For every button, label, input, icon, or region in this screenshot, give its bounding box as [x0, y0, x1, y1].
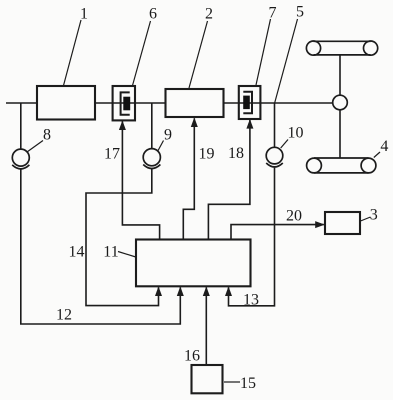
label 6 — [133, 5, 158, 85]
box 15 — [192, 365, 223, 393]
svg-text:16: 16 — [184, 347, 200, 364]
wire: input shaft left stub — [6, 102, 37, 104]
label 5 — [275, 3, 305, 103]
wire 13 (sensor 10 to controller) — [229, 168, 275, 306]
box 2 — [166, 89, 224, 117]
clutch 7 — [239, 86, 261, 119]
svg-text:15: 15 — [240, 375, 256, 392]
wire 12 (sensor 8 to controller) — [21, 170, 181, 325]
svg-text:2: 2 — [205, 5, 213, 22]
svg-text:7: 7 — [269, 4, 277, 21]
wire: shaft box2 to differential — [224, 102, 333, 104]
svg-text:12: 12 — [56, 306, 72, 323]
sensor 8 — [12, 149, 29, 169]
wire 19 (controller to box 2) — [183, 118, 194, 239]
clutch 6 — [113, 86, 135, 120]
wire: tap down to sensor 9 — [151, 103, 153, 149]
sensor 10 — [266, 147, 283, 167]
label 2 — [189, 5, 213, 88]
wire 16 (box 15 to controller) — [205, 288, 207, 366]
box 1 — [37, 86, 95, 120]
label 15 — [224, 375, 256, 392]
wire 14 (sensor 9 to controller) — [86, 169, 159, 306]
label 1 — [64, 5, 89, 85]
svg-text:18: 18 — [228, 145, 244, 162]
front axle with wheels (top) — [306, 41, 377, 55]
label 8 — [27, 126, 51, 152]
svg-text:8: 8 — [43, 126, 51, 143]
svg-text:13: 13 — [243, 291, 259, 308]
svg-text:9: 9 — [164, 126, 172, 143]
svg-text:1: 1 — [80, 5, 88, 22]
svg-text:10: 10 — [288, 125, 304, 142]
wire: tap down to sensor 8 — [20, 103, 22, 149]
label 3 — [361, 206, 378, 223]
svg-text:20: 20 — [286, 207, 302, 224]
wire: lower axle shaft — [339, 110, 341, 158]
label 9 — [158, 126, 172, 151]
differential — [333, 95, 348, 110]
rear axle with wheels (bottom), label 4 — [307, 158, 376, 173]
wire: upper axle shaft — [339, 55, 341, 96]
wire 17 (controller to clutch 6) — [122, 122, 159, 240]
label 10 — [281, 125, 304, 148]
wire 20 (controller to box 3) — [231, 225, 324, 240]
svg-text:17: 17 — [104, 145, 120, 162]
controller box 11 — [136, 240, 251, 287]
svg-text:19: 19 — [199, 145, 215, 162]
svg-text:5: 5 — [296, 3, 304, 20]
label 4 — [374, 138, 389, 158]
sensor 9 — [143, 149, 160, 169]
label 11 — [103, 243, 136, 260]
wire: tap down to sensor 10 — [274, 103, 276, 148]
wire 18 (controller to clutch 7) — [208, 120, 250, 240]
svg-text:4: 4 — [380, 138, 388, 155]
label 7 — [256, 4, 277, 85]
svg-text:6: 6 — [149, 5, 157, 22]
svg-text:14: 14 — [69, 243, 85, 260]
svg-text:3: 3 — [370, 206, 378, 223]
svg-text:11: 11 — [103, 243, 118, 260]
wire: shaft box1 to box2 — [95, 102, 166, 104]
box 3 — [325, 212, 360, 234]
